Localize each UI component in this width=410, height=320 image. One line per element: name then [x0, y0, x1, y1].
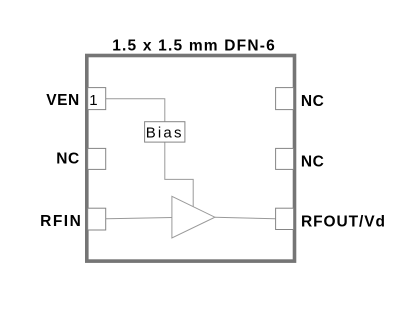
pin 5 box (NC right middle)	[276, 148, 294, 169]
label NC (pin 6)	[301, 93, 325, 110]
label VEN (pin 1)	[46, 92, 80, 109]
op-amp amplifier triangle	[172, 196, 215, 238]
svg-text:RFOUT/Vd: RFOUT/Vd	[301, 213, 386, 230]
svg-text:Bias: Bias	[146, 125, 184, 142]
svg-text:NC: NC	[301, 153, 325, 170]
pin 2 box (NC left)	[88, 148, 106, 169]
package outline U1 (DFN-6)	[87, 56, 295, 262]
label NC (pin 5)	[301, 153, 325, 170]
label RFIN (pin 3)	[40, 213, 82, 230]
svg-text:RFIN: RFIN	[40, 213, 82, 230]
svg-text:NC: NC	[56, 151, 80, 168]
pin 1 box (VEN)	[88, 88, 106, 110]
svg-text:1: 1	[89, 92, 97, 109]
pin 3 box (RFIN)	[88, 208, 106, 230]
pin 4 box (RFOUT/Vd)	[276, 208, 294, 229]
label RFOUT/Vd (pin 4)	[301, 213, 386, 230]
Bias block	[145, 122, 185, 142]
pin 1 number	[89, 92, 97, 109]
package title: 1.5 x 1.5 mm DFN-6	[112, 37, 276, 54]
svg-text:1.5 x 1.5 mm DFN-6: 1.5 x 1.5 mm DFN-6	[112, 37, 276, 54]
wire: pin 1 to Bias input	[106, 99, 165, 122]
wire: RFIN to amplifier input	[106, 218, 172, 219]
pin 6 box (NC right top)	[276, 88, 294, 110]
svg-text:VEN: VEN	[46, 92, 80, 109]
wire: Bias output to amplifier	[165, 142, 193, 207]
svg-text:NC: NC	[301, 93, 325, 110]
wire: amplifier output to RFOUT	[215, 217, 276, 218]
label NC (pin 2)	[56, 151, 80, 168]
